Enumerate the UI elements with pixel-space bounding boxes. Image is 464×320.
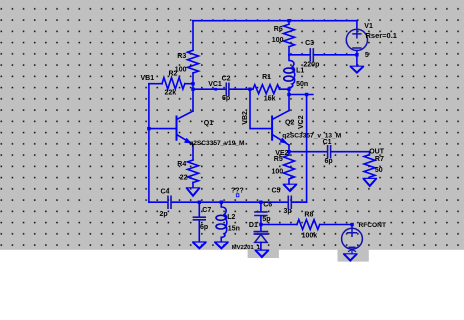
wire C2 to VB2 node	[230, 88, 250, 90]
svg-text:D1: D1	[249, 222, 258, 229]
capacitor C5	[288, 196, 291, 208]
node D1	[259, 223, 262, 226]
ground (R5)	[283, 184, 296, 191]
diode D1	[254, 225, 267, 250]
capacitor C4	[168, 196, 171, 208]
wire R2 right lead	[185, 83, 193, 85]
svg-text:RFCONT: RFCONT	[359, 222, 386, 229]
node Q1 base	[147, 127, 150, 130]
voltage source V2	[342, 225, 363, 254]
svg-text:C7: C7	[202, 207, 211, 214]
svg-text:3p: 3p	[284, 208, 292, 215]
svg-text:OUT: OUT	[369, 149, 385, 156]
node R2/R3	[191, 82, 194, 85]
svg-text:V1: V1	[364, 23, 373, 30]
svg-text:R6: R6	[274, 26, 283, 33]
svg-text:q2SC3357_v19_M: q2SC3357_v19_M	[189, 140, 245, 147]
wire D1 to R8	[261, 224, 297, 226]
wire VB1 horizontal	[149, 83, 162, 85]
node C7	[198, 201, 201, 204]
wire VB1 vertical	[148, 84, 150, 203]
resistor R3	[188, 50, 199, 73]
wire C3 left	[289, 54, 310, 56]
svg-text:L1: L1	[296, 68, 304, 75]
svg-text:2p: 2p	[160, 211, 168, 218]
wire R3 top lead	[192, 21, 194, 51]
svg-text:C3: C3	[305, 40, 314, 47]
resistor R1	[250, 85, 289, 94]
svg-text:100: 100	[272, 168, 284, 175]
svg-text:50n: 50n	[296, 81, 308, 88]
marker box (???)	[236, 194, 239, 197]
node C6	[259, 201, 262, 204]
wire VC1	[193, 88, 226, 90]
svg-text:6p: 6p	[200, 224, 208, 231]
transistor Q1	[177, 111, 194, 144]
svg-text:Rser=0.1: Rser=0.1	[366, 31, 397, 40]
resistor R6	[284, 21, 295, 55]
wire C5 right	[292, 201, 307, 203]
wire Q1 emitter lead	[192, 144, 194, 160]
svg-text:C2: C2	[222, 75, 231, 82]
resistor R2	[162, 78, 185, 90]
svg-text:R7: R7	[375, 156, 384, 163]
wire Q2 collector	[288, 95, 290, 111]
wire bus middle	[172, 201, 288, 203]
wire Q2 emitter lead	[288, 145, 290, 152]
node L1 bottom	[287, 88, 290, 91]
svg-text:5: 5	[365, 52, 369, 59]
wire Q1 collector	[192, 89, 194, 111]
svg-text:VB2: VB2	[242, 111, 249, 125]
capacitor C3	[310, 49, 313, 61]
wire stub VC2	[289, 89, 313, 94]
svg-text:220p: 220p	[303, 61, 319, 68]
wire C3 right	[314, 54, 357, 56]
wire R4 to ground	[192, 183, 194, 188]
svg-text:22: 22	[180, 175, 188, 182]
wire bus left	[149, 201, 168, 203]
capacitor C1	[328, 146, 331, 158]
ground (V2)	[344, 254, 357, 261]
svg-text:MV2201_1: MV2201_1	[232, 245, 261, 251]
node L2	[220, 201, 223, 204]
node VB2	[248, 88, 251, 91]
node VC2 stub left	[287, 93, 290, 96]
resistor R7	[364, 152, 375, 177]
ground (R4)	[186, 188, 199, 197]
wire R8 to V2	[320, 224, 352, 226]
wire VE2 to C1	[289, 151, 327, 153]
resistor R5	[284, 152, 295, 184]
svg-text:C6: C6	[263, 202, 272, 209]
node C3/V1	[355, 53, 358, 56]
node VC2 stub tee	[305, 93, 308, 96]
node top rail / R6	[287, 19, 290, 22]
svg-text:15k: 15k	[264, 96, 276, 103]
capacitor C2	[226, 83, 229, 95]
svg-text:VB1: VB1	[141, 75, 155, 82]
svg-text:Q1: Q1	[204, 120, 213, 127]
svg-text:R1: R1	[262, 74, 271, 81]
svg-text:50: 50	[375, 167, 383, 174]
ground (V1)	[350, 66, 363, 73]
svg-text:6p: 6p	[325, 158, 333, 165]
svg-text:15n: 15n	[228, 226, 240, 233]
wire C1 to OUT	[331, 151, 369, 153]
wire R3 bottom lead	[192, 73, 194, 89]
ground (R7)	[363, 178, 376, 186]
node VE2	[287, 150, 290, 153]
ground (C7)	[193, 242, 206, 249]
svg-text:VE2: VE2	[275, 150, 288, 157]
svg-text:R5: R5	[274, 156, 283, 163]
wire Q1 base	[149, 128, 177, 130]
capacitor C6	[255, 202, 267, 224]
capacitor C7	[193, 202, 205, 242]
node VC1	[191, 88, 194, 91]
svg-text:100k: 100k	[302, 232, 318, 239]
svg-text:C1: C1	[323, 139, 332, 146]
inductor L1	[284, 55, 295, 89]
svg-text:L2: L2	[227, 214, 235, 221]
wire VC2 vertical	[292, 95, 306, 203]
ground (L2)	[215, 242, 228, 249]
resistor R8	[297, 220, 320, 230]
svg-text:R3: R3	[177, 53, 186, 60]
wire VB2 vertical	[250, 89, 272, 128]
wire top rail	[193, 20, 357, 22]
resistor R4	[188, 160, 199, 183]
svg-text:C4: C4	[161, 188, 170, 195]
svg-text:VC2: VC2	[298, 115, 305, 129]
svg-text:6p: 6p	[222, 95, 230, 102]
svg-text:5p: 5p	[262, 216, 270, 223]
svg-text:Q2: Q2	[285, 120, 294, 127]
ground (D1)	[255, 250, 268, 258]
svg-text:VC1: VC1	[208, 81, 222, 88]
svg-text:22k: 22k	[165, 90, 177, 97]
svg-text:R8: R8	[304, 211, 313, 218]
svg-text:100: 100	[272, 37, 284, 44]
transistor Q2	[272, 111, 289, 145]
inductor L2	[216, 202, 227, 242]
voltage source V1	[346, 21, 367, 66]
node VC1 marker	[214, 88, 217, 91]
svg-text:q2SC3357_v_13_M: q2SC3357_v_13_M	[282, 133, 342, 140]
node RFCONT	[350, 223, 353, 226]
svg-text:C5: C5	[272, 188, 281, 195]
svg-text:100: 100	[175, 66, 187, 73]
svg-text:R4: R4	[177, 161, 186, 168]
